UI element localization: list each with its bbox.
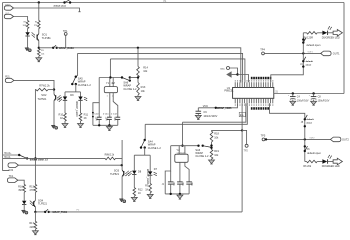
testpoint TP2 [242, 130, 248, 152]
testpoint TP5 [261, 134, 266, 141]
resistor R15 27K [29, 184, 36, 192]
J label left of C5 [162, 184, 165, 186]
resistor R8 2.2k horizontal [105, 155, 116, 160]
wire OUT1 chain upper [302, 33, 304, 54]
wire R6 to D6 [317, 161, 322, 163]
ground below R10 [62, 121, 68, 128]
svg-text:39K: 39K [18, 188, 23, 192]
svg-text:TK1: TK1 [9, 174, 14, 178]
svg-text:WRAP_TXD0: WRAP_TXD0 [52, 211, 67, 214]
crystal Y2 [175, 146, 188, 163]
capacitor C12 [111, 93, 120, 126]
led D9 [59, 92, 74, 102]
svg-text:10k: 10k [143, 69, 148, 73]
capacitor C7 [185, 162, 192, 194]
svg-text:R19: R19 [214, 149, 219, 153]
wire Y2 bypass left [165, 146, 171, 194]
ground below R9 [147, 193, 153, 199]
resistor R12 1K [133, 174, 143, 196]
led D3 (opto input) [22, 192, 33, 206]
ground below C8 [311, 101, 317, 106]
svg-text:TP4: TP4 [260, 48, 265, 52]
ground below R19 [209, 159, 215, 164]
wire XTAL net B [110, 59, 245, 83]
svg-text:1K: 1K [145, 187, 148, 191]
wire TP2 down to WRAP_TXD [241, 103, 243, 212]
svg-text:100uF/16V: 100uF/16V [318, 100, 330, 103]
svg-text:default close 1-2: default close 1-2 [30, 158, 49, 161]
wire OUT1 chain lower [271, 53, 304, 82]
svg-text:R12: R12 [138, 187, 143, 191]
capacitor C11 [103, 93, 112, 126]
svg-text:OUT1: OUT1 [333, 51, 340, 55]
svg-text:SO3: SO3 [114, 168, 120, 172]
svg-text:1K: 1K [60, 116, 63, 120]
jumper J5 close [301, 115, 314, 128]
svg-text:2K: 2K [84, 116, 87, 120]
signal ground below SO2 [51, 101, 57, 129]
resistor R3 10k [38, 49, 45, 57]
svg-text:CLOSE 1-2: CLOSE 1-2 [123, 87, 137, 91]
resistor R10 1K [59, 100, 67, 121]
svg-text:close: close [306, 123, 312, 125]
resistor R14 10k [137, 65, 149, 77]
wire OUT2 net [265, 137, 331, 140]
wire R14 top [137, 48, 139, 67]
wire crystal1 top [99, 59, 122, 79]
wire caps bottom rail [93, 124, 118, 126]
tiny label near wire [77, 210, 80, 212]
svg-text:TP5: TP5 [261, 134, 266, 138]
wire WRAP_RXD to U1 pin [57, 47, 241, 83]
wire P3 net to Y2 [183, 103, 246, 122]
capacitor C4 100uF [288, 94, 309, 103]
svg-text:R16: R16 [18, 185, 23, 189]
wire U1 to R18 [212, 129, 244, 131]
testpoint TP4 [260, 48, 265, 55]
svg-text:D9: D9 [70, 93, 74, 97]
net label WRAP_LED rotated [75, 101, 79, 117]
svg-text:default close: default close [54, 4, 68, 7]
capacitor C10 [93, 103, 102, 126]
svg-text:RJ2: RJ2 [9, 168, 14, 172]
ground below R12 [131, 196, 137, 201]
svg-text:27K: 27K [29, 188, 34, 192]
resistor R16 39K [18, 184, 25, 192]
connector flag OUT1 [321, 51, 341, 56]
svg-text:4M: 4M [111, 81, 115, 85]
wire R8 to TXD drive [116, 140, 123, 158]
connector flag RJ1 [5, 74, 14, 82]
svg-text:R8W2.2k: R8W2.2k [105, 155, 115, 157]
U1 bottom pin numbers [251, 107, 269, 110]
svg-text:default open: default open [306, 43, 321, 47]
connector flag J1 pin2 [4, 14, 27, 21]
wire R1 from VCC rail [38, 3, 40, 21]
U1 top pins [235, 80, 273, 88]
svg-text:WRAP_LED1: WRAP_LED1 [146, 169, 150, 185]
wire HDA net to R8 [27, 157, 105, 159]
jumper default-close on VCC rail [54, 0, 72, 7]
svg-text:VCC: VCC [203, 105, 208, 108]
wire TK1 to R [18, 180, 24, 184]
svg-text:10k: 10k [141, 89, 146, 93]
svg-text:WRAP_RXD0: WRAP_RXD0 [59, 47, 75, 50]
svg-text:TLP181: TLP181 [42, 36, 52, 40]
svg-text:11.0592: 11.0592 [176, 152, 186, 156]
resistor R7 2.2k horizontal [36, 84, 54, 91]
svg-text:R17: R17 [29, 221, 34, 225]
connector arrow D6 out [333, 158, 342, 165]
svg-text:WRAP_VCC5: WRAP_VCC5 [217, 107, 232, 110]
resistor R19 10k [210, 149, 219, 159]
svg-text:TP1: TP1 [63, 29, 68, 33]
jumper default open D5 [302, 38, 321, 47]
resistor R13 10k [137, 83, 146, 96]
wire net stub end [78, 11, 80, 13]
svg-text:R13: R13 [141, 85, 146, 89]
wire opto emitter to node [38, 41, 40, 49]
wire RJ2 net [18, 164, 123, 166]
ground below R13 [135, 95, 141, 101]
resistor R11 2K [79, 100, 88, 121]
svg-text:R10: R10 [59, 112, 64, 116]
wire U1 VCC rail right [274, 92, 344, 94]
svg-text:default: default [306, 118, 313, 121]
ground below R11 [78, 121, 84, 128]
svg-text:SO1: SO1 [42, 32, 48, 36]
switch SA5 [71, 76, 91, 87]
svg-text:WRAP_LED0: WRAP_LED0 [75, 101, 79, 117]
wire SO4 emitter node [34, 207, 36, 213]
svg-text:HDA0+: HDA0+ [4, 152, 12, 155]
resistor R9 1K [145, 175, 151, 193]
ground below Y2 caps [177, 194, 183, 199]
led D7 [148, 155, 158, 176]
wire net WRAP_TXD start [35, 211, 45, 213]
wire WRAP_TXD to TP2 line [49, 211, 242, 213]
svg-text:2 C10: 2 C10 [93, 113, 100, 115]
svg-text:D5/GREEN LED: D5/GREEN LED [322, 36, 340, 39]
wire to R4 [303, 32, 306, 34]
svg-text:SO2: SO2 [41, 93, 47, 97]
U1 refdes label [224, 86, 234, 93]
connector flag RJ2 [8, 163, 18, 172]
svg-text:10k: 10k [214, 153, 219, 157]
opto-transistor Q1 TLP181 [32, 29, 52, 41]
svg-text:P89C51: P89C51 [224, 89, 234, 93]
wire net WRAP_RXD [39, 47, 53, 49]
wire XTAL net A [76, 53, 243, 82]
svg-text:R15: R15 [29, 185, 34, 189]
resistor R1 27K [34, 21, 40, 29]
connector arrow D5 out [333, 30, 342, 37]
crystal Y1 [104, 78, 117, 98]
resistor R18 10k [210, 130, 219, 142]
testpoint TP3 [220, 67, 237, 75]
U1 top pin numbers [251, 77, 272, 80]
wire OUT2 chain lower [304, 139, 306, 161]
opto-transistor SO3 TLP521 [110, 158, 129, 176]
svg-text:R6 20k: R6 20k [303, 165, 312, 168]
wire right border drop to VCC rail [343, 3, 345, 94]
svg-text:D7: D7 [154, 167, 158, 171]
svg-text:10k: 10k [214, 135, 219, 139]
testpoint TP1 [63, 29, 68, 48]
net label WRAP_TXD [52, 211, 67, 214]
pin 31 label [275, 91, 278, 93]
connector arrow RST [226, 71, 248, 82]
svg-text:TLP521: TLP521 [38, 202, 48, 206]
svg-text:R11: R11 [84, 112, 89, 116]
jumper on WRAP_RXD [52, 45, 58, 49]
signal ground below D1 [25, 36, 31, 52]
signal ground below D3 [22, 204, 28, 214]
svg-text:D8: D8 [138, 169, 142, 173]
net label WRAP_LED1 rotated [146, 169, 150, 185]
switch SA3 [197, 145, 211, 148]
svg-text:HDA0-: HDA0- [4, 156, 11, 159]
led D6 GREEN [322, 155, 340, 168]
wire VCC top rail [3, 2, 345, 4]
ground below C4 [290, 101, 296, 106]
ground below R17 [32, 229, 38, 235]
switch SA3 label [195, 148, 209, 158]
svg-text:10k: 10k [41, 54, 44, 56]
node VCC label [5, 4, 10, 7]
opto-transistor SO2 TLP521 [37, 90, 60, 101]
svg-text:TP3: TP3 [220, 69, 225, 71]
wire cap bypass left [92, 78, 99, 126]
jumper default open D6 [304, 145, 322, 155]
svg-text:R7W2.2k: R7W2.2k [39, 84, 50, 88]
svg-text:100uF/16V: 100uF/16V [297, 100, 309, 103]
svg-text:P10: P10 [240, 115, 243, 117]
capacitor C8 100uF [309, 94, 330, 103]
wire left border drop [3, 3, 9, 171]
svg-text:OUT2: OUT2 [309, 137, 314, 139]
svg-text:1K: 1K [138, 191, 141, 195]
svg-text:C9: C9 [203, 110, 207, 114]
jumper HDA [18, 154, 28, 160]
led D5 GREEN [322, 26, 340, 39]
ground below C9 [195, 115, 201, 120]
connector flag OUT2 [330, 137, 349, 142]
led D1 (opto input) [25, 29, 29, 37]
capacitor C9 [196, 108, 218, 118]
wire OUT1 net [265, 51, 322, 54]
U1 bottom pins [235, 98, 273, 106]
connector flag TK1 [7, 174, 17, 182]
wire D5 to connector [328, 32, 333, 34]
net label box [239, 112, 245, 117]
wire R14-R13 node [137, 76, 139, 82]
capacitor C5 [168, 171, 174, 194]
wire HDA plus stub [3, 152, 20, 155]
net label WRAP_RXD [59, 47, 75, 50]
signal ground below SO3 [119, 176, 125, 202]
switch SA6 [121, 76, 138, 91]
switch SA4 [140, 124, 162, 150]
svg-text:D6/GREEN LED: D6/GREEN LED [322, 165, 340, 168]
svg-text:100nF/100V: 100nF/100V [203, 114, 217, 118]
resistor R17 22K [29, 212, 36, 229]
wire SA4 to LED bridge [134, 148, 150, 156]
wire Y2 top rail [171, 145, 199, 147]
svg-text:R9: R9 [145, 184, 149, 188]
net label default close [30, 158, 49, 161]
wire R4 to D5 [317, 32, 322, 34]
svg-text:CLOSE 1-2: CLOSE 1-2 [148, 146, 162, 150]
opto-transistor SO4 TLP521 [34, 192, 48, 207]
svg-text:CLOSE 1-2: CLOSE 1-2 [195, 154, 209, 158]
wire D6 to connector [328, 161, 333, 163]
wire Y2 center drop [181, 122, 183, 147]
svg-text:RJ1: RJ1 [5, 74, 10, 78]
svg-text:TP2: TP2 [244, 151, 249, 153]
svg-text:default open: default open [307, 151, 322, 155]
junction on VCC rail [38, 1, 40, 3]
wire R7 left drop [34, 90, 36, 160]
svg-text:R14: R14 [143, 65, 148, 69]
svg-text:OUT2: OUT2 [342, 137, 349, 141]
svg-text:TLP521: TLP521 [110, 172, 120, 176]
capacitor C6 [177, 162, 183, 194]
svg-text:TLP521: TLP521 [37, 97, 47, 101]
wire HDA minus stub [3, 156, 28, 159]
ground below caps [106, 125, 112, 130]
svg-text:OUT1: OUT1 [308, 51, 313, 53]
svg-text:2 C11: 2 C11 [103, 113, 109, 115]
svg-text:R18: R18 [214, 132, 219, 136]
resistor R4 120R [303, 32, 317, 40]
svg-text:close: close [306, 64, 312, 66]
wire VCC feed [198, 103, 237, 110]
tiny sheet text [164, 1, 168, 3]
wire to R6 [305, 161, 307, 163]
svg-text:2 C12: 2 C12 [111, 113, 118, 115]
led D8 [128, 155, 142, 176]
wire Y2 caps bottom rail [165, 193, 189, 195]
svg-text:R4 120R: R4 120R [303, 36, 313, 39]
resistor R6 20k [303, 160, 317, 168]
wire long P3.1 net [145, 103, 247, 124]
connector flag J1 pin1 [4, 6, 79, 12]
wire U1 to OUT2 chain [270, 103, 305, 139]
svg-text:CLOSE 1-2: CLOSE 1-2 [78, 83, 92, 87]
jumper default close J4 [300, 57, 313, 68]
wire R15 top [34, 158, 36, 184]
wire RJ1 to corner [14, 80, 55, 90]
led D2 [78, 92, 87, 101]
resistor R5 39K [23, 21, 29, 29]
ground below R3 [36, 56, 42, 62]
jumper on WRAP_TXD [44, 209, 50, 213]
op-amp/MCU U1 P89C51 body [233, 88, 274, 99]
node R18-R19 [210, 142, 212, 150]
wire SA5 to LED bridge [65, 84, 81, 92]
svg-text:22K: 22K [29, 225, 34, 229]
svg-text:default: default [306, 60, 313, 63]
